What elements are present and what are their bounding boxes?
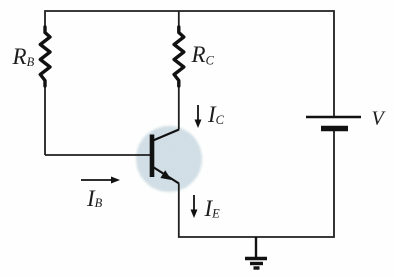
svg-text:V: V <box>372 108 387 130</box>
svg-text:RC: RC <box>191 42 215 68</box>
svg-text:IB: IB <box>86 186 103 211</box>
svg-text:IC: IC <box>207 102 225 127</box>
svg-text:IE: IE <box>204 196 221 221</box>
svg-text:RB: RB <box>12 44 35 69</box>
